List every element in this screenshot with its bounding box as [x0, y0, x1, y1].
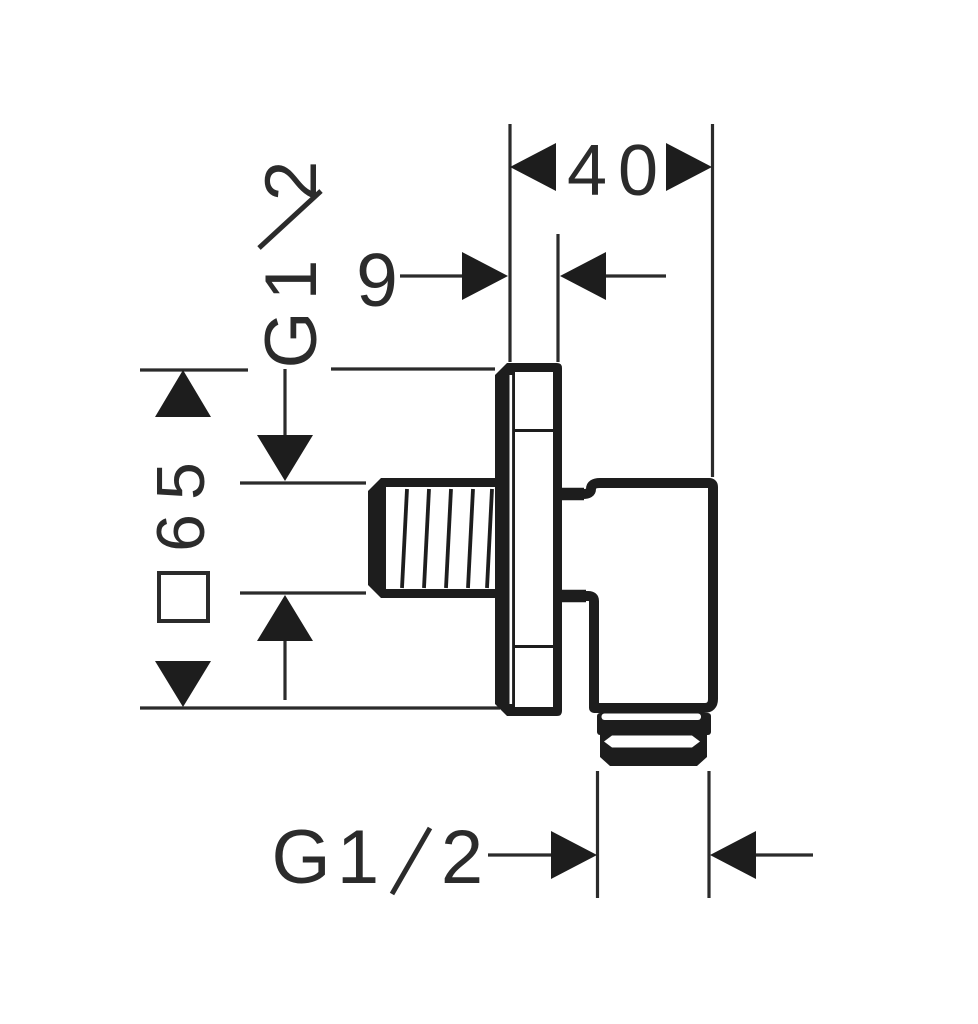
svg-text:9: 9 — [356, 238, 398, 322]
svg-text:2: 2 — [441, 815, 483, 900]
svg-text:0: 0 — [618, 131, 658, 211]
svg-text:2: 2 — [251, 161, 332, 202]
svg-text:65: 65 — [143, 448, 219, 552]
svg-text:1: 1 — [251, 260, 332, 301]
svg-text:4: 4 — [567, 131, 607, 211]
svg-text:G: G — [251, 312, 332, 369]
svg-text:1: 1 — [337, 815, 379, 900]
svg-text:G: G — [271, 815, 330, 900]
